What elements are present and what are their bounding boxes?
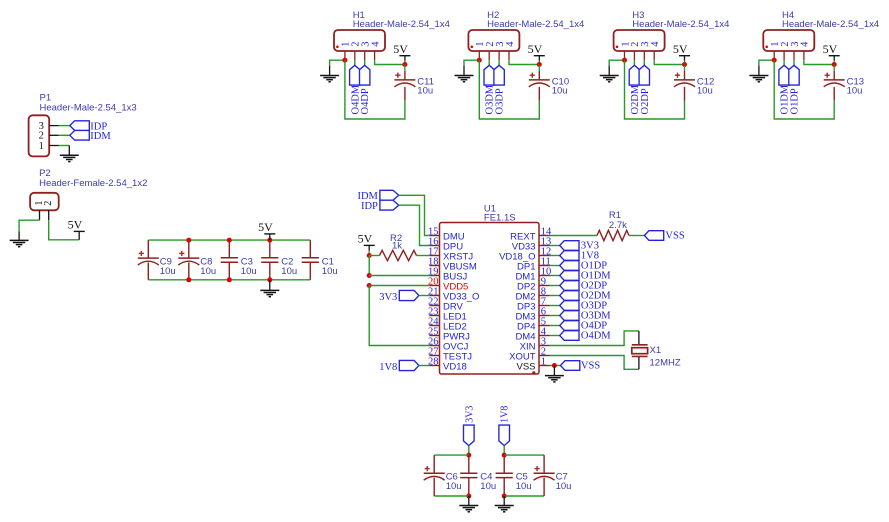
- ground at P1: [60, 155, 79, 161]
- net flag 3V3: [560, 240, 599, 251]
- ground at 3V3 group: [459, 496, 478, 512]
- svg-text:O1DP: O1DP: [790, 88, 801, 114]
- svg-text:Header-Male-2.54_1x4: Header-Male-2.54_1x4: [487, 19, 584, 30]
- svg-text:FE1.1S: FE1.1S: [484, 213, 516, 224]
- U1 pin 21 VD33_O: [428, 287, 479, 303]
- junction on 5V rail: [267, 238, 272, 243]
- svg-text:IDP: IDP: [361, 201, 378, 212]
- junction 1V8 top: [502, 453, 507, 458]
- wire H3 pin1 to ground: [609, 60, 624, 75]
- net flag 1V8: [560, 250, 599, 261]
- svg-text:5V: 5V: [528, 42, 543, 56]
- wire U1 to 3V3: [550, 245, 560, 247]
- capacitor C2 10u: [261, 240, 297, 280]
- svg-text:VD18: VD18: [443, 361, 467, 372]
- svg-text:4: 4: [370, 41, 381, 47]
- svg-text:1: 1: [541, 357, 546, 368]
- svg-text:1: 1: [39, 141, 44, 152]
- wire bottom rail 1V8: [504, 495, 544, 497]
- svg-text:10u: 10u: [480, 481, 496, 492]
- U1 pin 9 DP2: [517, 277, 549, 293]
- junction 3V3 bottom: [466, 494, 471, 499]
- wire P1 pin3 to IDP: [59, 125, 70, 127]
- junction on ground rail: [267, 277, 272, 282]
- power flag 5V at H1: [393, 42, 410, 65]
- wire H3 pin4 to 5V: [654, 60, 684, 64]
- junction H1 pin1: [342, 58, 347, 63]
- wire U1 to O3DP: [550, 305, 560, 307]
- net port O4DP on H1 pin3: [360, 60, 372, 114]
- wire 1V8 to pin28: [419, 365, 429, 367]
- U1 pin 11 DP1: [517, 257, 551, 273]
- U1 pin 5 DP4: [517, 317, 549, 333]
- wire XOUT to crystal: [550, 356, 639, 370]
- wire U1 to O3DM: [550, 315, 560, 317]
- U1 pin 15 DMU: [428, 227, 465, 243]
- net flag O2DP: [560, 280, 608, 291]
- wire bottom rail 3V3: [434, 495, 469, 497]
- wire U1 to 1V8: [550, 255, 560, 257]
- capacitor C3 10u: [221, 240, 257, 280]
- ground at P2: [10, 240, 29, 246]
- wire P2 pin1 to ground: [19, 220, 39, 240]
- net flag IDP: [70, 121, 108, 133]
- U1 pin 28 VD18: [428, 357, 467, 373]
- svg-text:IDM: IDM: [90, 131, 111, 142]
- ground at 1V8 group: [495, 496, 514, 512]
- svg-text:5V: 5V: [258, 220, 273, 234]
- wire 5V down to OVCJ pin26: [369, 286, 429, 346]
- connector P1 Header-Male-2.54_1x3: [29, 92, 137, 156]
- resistor R1 2.7k: [597, 210, 644, 241]
- junction on 5V rail: [227, 238, 232, 243]
- svg-text:10u: 10u: [552, 85, 568, 96]
- net flag O1DM: [560, 270, 612, 281]
- capacitor C12 10u: [674, 65, 714, 101]
- connector H3 Header-Male-2.54_1x4: [614, 10, 730, 60]
- wire H4 pin4 to 5V: [804, 60, 834, 64]
- net port O4DM on H1 pin2: [350, 60, 362, 114]
- svg-text:5V: 5V: [393, 42, 408, 56]
- net flag 3V3 at U1 pin21: [379, 290, 419, 302]
- capacitor C11 10u: [394, 65, 434, 101]
- power flag 5V at P2: [68, 218, 85, 240]
- ground at U1 pin1: [545, 366, 564, 382]
- crystal X1 top stub: [638, 331, 640, 345]
- svg-text:5V: 5V: [358, 232, 373, 246]
- svg-text:5V: 5V: [823, 42, 838, 56]
- junction on ground rail: [227, 277, 232, 282]
- junction H1 5V node: [402, 62, 407, 67]
- junction H4 pin1: [772, 58, 777, 63]
- junction 5V / R2: [367, 253, 372, 258]
- net flag O1DP: [560, 260, 608, 271]
- power flag 5V at H3: [673, 42, 690, 65]
- net flag O4DM: [560, 330, 612, 341]
- net flag IDM: [70, 131, 112, 143]
- svg-text:O4DP: O4DP: [360, 88, 371, 114]
- net flag VSS at R1: [644, 230, 684, 241]
- svg-text:2: 2: [43, 201, 54, 206]
- svg-text:3V3: 3V3: [464, 406, 475, 423]
- net port O1DM on H4 pin2: [779, 60, 791, 114]
- net flag O4DP: [560, 320, 608, 331]
- U1 pin 4 DM4: [515, 327, 549, 343]
- svg-text:4: 4: [650, 41, 661, 47]
- wire 5V to VDD5 pin20: [369, 285, 429, 287]
- U1 pin 18 VBUSM: [428, 257, 477, 273]
- connector P2 Header-Female-2.54_1x2: [30, 168, 147, 220]
- connector H4 Header-Male-2.54_1x4: [763, 10, 879, 60]
- wire 5V rail (top) of capacitor bank: [148, 239, 310, 241]
- capacitor C6 10u: [424, 455, 462, 496]
- net flag IDM: [357, 190, 398, 202]
- U1 pin 10 DM1: [515, 267, 551, 283]
- wire H2 pin1 loop to C10 bottom: [479, 60, 539, 119]
- power flag 5V at H2: [528, 42, 545, 65]
- junction H4 5V node: [832, 62, 837, 67]
- wire P1 pin2 to IDM: [59, 134, 70, 136]
- svg-text:1V8: 1V8: [500, 406, 511, 423]
- U1 pin 12 VD18_O: [499, 247, 551, 263]
- junction VSS: [552, 363, 557, 368]
- wire 5V vertical: [368, 256, 370, 276]
- ground at H1: [320, 76, 339, 82]
- svg-text:4: 4: [505, 41, 516, 47]
- svg-text:10u: 10u: [241, 266, 257, 277]
- wire 1V8 to rail: [503, 446, 505, 456]
- wire U1 to O4DM: [550, 335, 560, 337]
- svg-text:2.7k: 2.7k: [609, 220, 627, 231]
- capacitor C7 10u: [534, 455, 572, 496]
- wire H4 pin1 loop to C13 bottom: [774, 60, 834, 119]
- U1 pin 7 DP3: [517, 297, 549, 313]
- svg-text:Header-Male-2.54_1x3: Header-Male-2.54_1x3: [40, 102, 137, 113]
- svg-text:10u: 10u: [160, 266, 176, 277]
- net flag VSS at U1 pin1: [561, 360, 601, 371]
- svg-text:5V: 5V: [68, 218, 83, 232]
- U1 pin 8 DM2: [515, 287, 549, 303]
- U1 pin 14 REXT: [510, 227, 552, 243]
- junction 1V8 bottom: [502, 494, 507, 499]
- wire 3V3 to rail: [468, 446, 470, 456]
- svg-text:Header-Female-2.54_1x2: Header-Female-2.54_1x2: [39, 178, 147, 189]
- U1 pin 3 XIN: [520, 337, 550, 353]
- ground at capacitor bank: [260, 280, 279, 297]
- wire REXT to R1: [550, 235, 598, 237]
- svg-text:28: 28: [428, 357, 439, 368]
- net flag 1V8 at U1 pin28: [379, 360, 419, 372]
- U1 pin 16 DPU: [428, 237, 463, 253]
- wire top rail 3V3: [434, 454, 469, 456]
- svg-text:5V: 5V: [673, 42, 688, 56]
- wire H1 pin1 loop to C11 bottom: [345, 60, 405, 119]
- wire U1 to O2DP: [550, 285, 560, 287]
- net port O2DM on H3 pin2: [629, 60, 641, 114]
- svg-text:10u: 10u: [516, 481, 532, 492]
- net flag 3V3 (bottom group): [464, 406, 476, 446]
- wire H2 pin4 to 5V: [509, 60, 539, 64]
- wire ground rail (bottom) of capacitor bank: [148, 279, 310, 281]
- svg-text:Header-Male-2.54_1x4: Header-Male-2.54_1x4: [782, 19, 879, 30]
- net flag IDP: [361, 200, 399, 212]
- U1 pin 2 XOUT: [509, 347, 549, 363]
- wire IDP to U1 pin16: [399, 205, 430, 245]
- wire U1 to O1DM: [550, 275, 560, 277]
- capacitor C8 10u: [178, 240, 216, 280]
- junction H2 pin1: [477, 58, 482, 63]
- power flag 5V at H4: [823, 42, 840, 65]
- wire XIN to crystal: [550, 331, 639, 346]
- U1 pin 27 TESTJ: [428, 347, 472, 363]
- svg-text:3V3: 3V3: [379, 292, 397, 303]
- wire U1 pin1 VSS node: [550, 365, 561, 367]
- wire H4 pin1 to ground: [759, 60, 774, 75]
- wire top rail 1V8: [504, 454, 544, 456]
- wire U1 to O1DP: [550, 265, 560, 267]
- wire P2 pin2 to 5V: [49, 220, 79, 240]
- U1 pin 6 DM3: [515, 307, 549, 323]
- power flag 5V at R2: [358, 232, 375, 256]
- IC U1 FE1.1S: [428, 204, 552, 375]
- net port O2DP on H3 pin3: [639, 60, 651, 114]
- wire H3 pin1 loop to C12 bottom: [625, 60, 685, 119]
- capacitor C4 10u: [460, 455, 496, 496]
- svg-text:10u: 10u: [417, 85, 433, 96]
- resistor R2 1k: [369, 233, 429, 261]
- svg-text:4: 4: [800, 41, 811, 47]
- U1 pin 22 DRV: [428, 297, 464, 313]
- net port O3DP on H2 pin3: [494, 60, 506, 114]
- svg-text:Header-Male-2.54_1x4: Header-Male-2.54_1x4: [632, 19, 729, 30]
- capacitor C1 10u: [302, 240, 338, 280]
- net port O1DP on H4 pin3: [789, 60, 801, 114]
- U1 pin 23 LED1: [428, 307, 467, 323]
- U1 pin 17 XRSTJ: [428, 247, 473, 263]
- capacitor C9 10u: [138, 240, 176, 280]
- svg-text:O4DM: O4DM: [581, 330, 611, 341]
- power flag 5V at capacitor bank: [258, 220, 275, 240]
- junction H2 5V node: [537, 62, 542, 67]
- net flag 1V8 (bottom group): [499, 406, 511, 446]
- junction 5V / BUSJ: [367, 273, 372, 278]
- svg-text:X1: X1: [650, 345, 662, 356]
- svg-text:10u: 10u: [697, 85, 713, 96]
- capacitor C5 10u: [496, 455, 532, 496]
- junction on ground rail: [186, 277, 191, 282]
- U1 pin 20 VDD5: [428, 277, 468, 293]
- svg-text:1k: 1k: [392, 240, 402, 251]
- svg-text:10u: 10u: [847, 85, 863, 96]
- ground at H2: [455, 76, 474, 82]
- U1 pin 13 VD33: [512, 237, 551, 253]
- U1 pin 1 VSS: [516, 357, 549, 373]
- wire 3V3 to pin21: [419, 295, 429, 297]
- capacitor C10 10u: [529, 65, 569, 101]
- svg-text:12MHZ: 12MHZ: [650, 357, 681, 368]
- wire 5V to BUSJ pin19: [369, 275, 429, 277]
- svg-text:VSS: VSS: [581, 360, 600, 371]
- junction H3 pin1: [622, 58, 627, 63]
- svg-text:VSS: VSS: [665, 230, 684, 241]
- junction on 5V rail: [186, 238, 191, 243]
- wire H1 pin1 to ground: [330, 60, 345, 75]
- net port O3DM on H2 pin2: [484, 60, 496, 114]
- U1 pin 26 OVCJ: [428, 337, 469, 353]
- svg-text:10u: 10u: [281, 266, 297, 277]
- svg-text:1V8: 1V8: [379, 362, 397, 373]
- crystal X1 12MHZ: [632, 345, 681, 369]
- connector H2 Header-Male-2.54_1x4: [468, 10, 584, 60]
- connector H1 Header-Male-2.54_1x4: [334, 10, 450, 60]
- net flag O2DM: [560, 290, 612, 301]
- net flag O3DP: [560, 300, 608, 311]
- wire H1 pin4 to 5V: [375, 60, 405, 64]
- net flag O3DM: [560, 310, 612, 321]
- svg-text:Header-Male-2.54_1x4: Header-Male-2.54_1x4: [353, 19, 450, 30]
- crystal X1 bottom stub: [638, 356, 640, 369]
- capacitor C13 10u: [824, 65, 864, 101]
- U1 pin 19 BUSJ: [428, 267, 468, 283]
- svg-text:10u: 10u: [200, 266, 216, 277]
- U1 pin 25 PWRJ: [428, 327, 470, 343]
- junction 5V / VDD5: [367, 283, 372, 288]
- wire H2 pin1 to ground: [464, 60, 479, 75]
- wire U1 to O4DP: [550, 325, 560, 327]
- wire IDM to U1 pin15: [399, 195, 430, 235]
- svg-text:O3DP: O3DP: [495, 88, 506, 114]
- junction H3 5V node: [682, 62, 687, 67]
- ground at H3: [600, 76, 619, 82]
- svg-text:10u: 10u: [322, 266, 338, 277]
- ground at H4: [749, 76, 768, 82]
- svg-text:10u: 10u: [446, 481, 462, 492]
- svg-text:VSS: VSS: [516, 361, 535, 372]
- wire P1 pin1 to ground: [59, 146, 70, 156]
- svg-text:O2DP: O2DP: [640, 88, 651, 114]
- U1 pin 24 LED2: [428, 317, 467, 333]
- junction 3V3 top: [466, 453, 471, 458]
- svg-text:10u: 10u: [556, 481, 572, 492]
- wire U1 to O2DM: [550, 295, 560, 297]
